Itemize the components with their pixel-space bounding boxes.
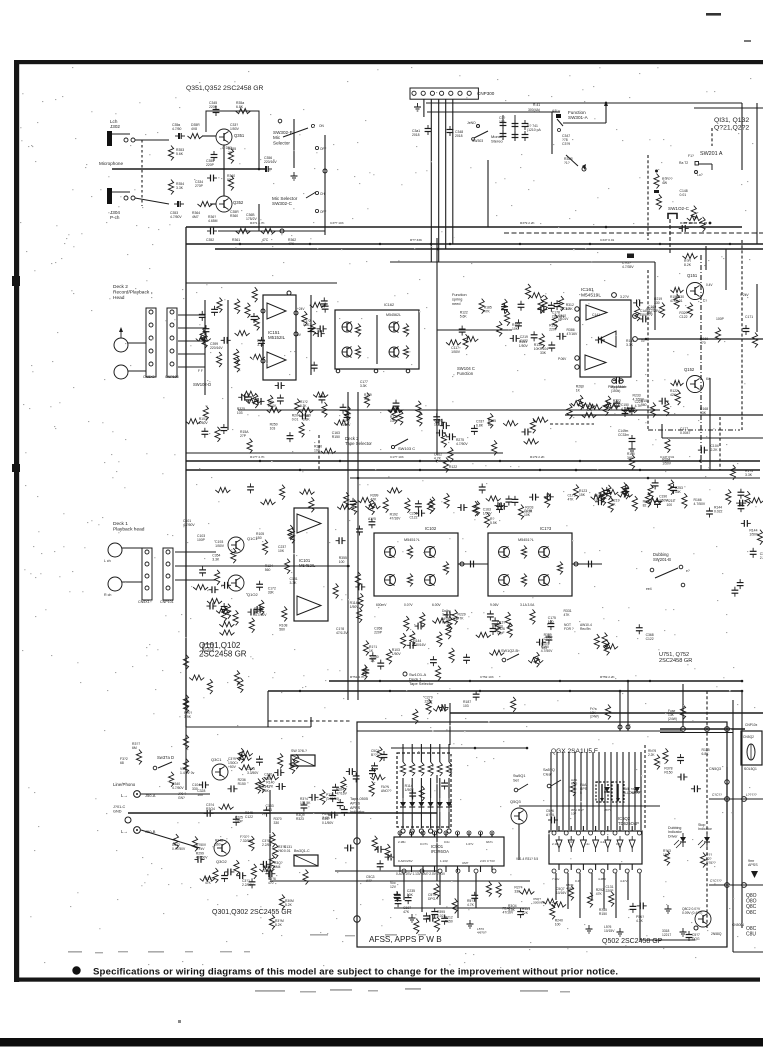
svg-text:R?5??: R?5??: [706, 861, 716, 865]
resistor: [345, 406, 350, 421]
resistor: [410, 631, 415, 646]
svg-text:?1?: ?1?: [564, 161, 570, 165]
resistor R363: [261, 228, 276, 233]
svg-text:1/50V: 1/50V: [215, 544, 225, 548]
label R1x2: [300, 400, 308, 408]
label Lch: [104, 559, 111, 563]
resistor left col a: [183, 735, 188, 750]
svg-text:47K: 47K: [484, 309, 491, 313]
resistor: [601, 491, 606, 506]
coil symbol in CN502: [747, 744, 755, 760]
resistor fuse R: [680, 705, 685, 720]
resistor: [234, 349, 239, 364]
op-amp IC161a: [586, 305, 607, 320]
svg-text:Q152: Q152: [684, 367, 695, 372]
svg-text:R?59 2.2K: R?59 2.2K: [600, 675, 616, 679]
label R105: [256, 532, 264, 540]
wire bus y453: [186, 452, 503, 454]
wire feedback loop Q351: [206, 111, 259, 132]
wire AFSS vertical 11: [616, 752, 618, 830]
svg-text:R3Q4: R3Q4: [206, 807, 215, 811]
svg-text:GN?: GN?: [178, 796, 185, 800]
transistor IC102 b: [385, 575, 396, 586]
resistor: [452, 898, 457, 913]
resistor: [446, 340, 461, 345]
label SW328: [291, 749, 307, 753]
label C229: [635, 400, 643, 408]
junction: [526, 747, 529, 750]
resistor R30b: [183, 699, 188, 714]
wire bus y461: [186, 460, 760, 462]
svg-text:1/50V: 1/50V: [230, 127, 240, 131]
label R331: [563, 609, 571, 617]
junction: [430, 243, 433, 246]
resistor: [388, 407, 403, 412]
wire LED col 2 lower: [420, 812, 422, 828]
node circle D: [725, 780, 729, 784]
capacitor C344b: [500, 130, 507, 140]
junction on bus y470: [639, 469, 641, 471]
svg-text:Selector: Selector: [273, 140, 290, 145]
label C149: [618, 429, 629, 437]
svg-text:4.7/50V: 4.7/50V: [541, 649, 553, 653]
switch SW201-A: [695, 162, 713, 174]
svg-text:R150: R150: [599, 912, 607, 916]
label R148: [215, 839, 223, 847]
wire vert deck2 a: [204, 300, 206, 395]
svg-text:A??: A??: [366, 879, 372, 883]
wire dash col right: [741, 240, 743, 430]
label W13k: [268, 400, 277, 408]
capacitor: [415, 510, 425, 517]
capacitor C344a: [500, 119, 507, 129]
junction: [258, 168, 261, 171]
resistor: [260, 499, 275, 504]
resistor R19 10k: [388, 407, 403, 412]
svg-text:A3/3QY: A3/3QY: [631, 791, 642, 795]
transistor Q351: [216, 129, 232, 145]
svg-text:C352: C352: [206, 238, 214, 242]
label R236: [238, 778, 246, 786]
resistor: [358, 593, 363, 608]
capacitor: [299, 413, 309, 420]
resistor: [405, 498, 410, 513]
capacitor: [233, 816, 240, 826]
capacitor: [276, 783, 286, 790]
pin circle IC161 top: [612, 293, 617, 298]
capacitor: [628, 405, 635, 415]
label M54512Lb: [518, 538, 534, 542]
node row below IC502: [552, 869, 641, 873]
svg-text:SW201 A: SW201 A: [700, 151, 723, 157]
resistor: [234, 357, 239, 372]
resistor LED col 5: [446, 762, 451, 776]
label 0v2: [641, 339, 646, 343]
capacitor C172: [308, 325, 315, 335]
label C268: [374, 627, 383, 635]
resistor: [207, 598, 222, 603]
svg-text:2018: 2018: [412, 133, 420, 137]
mic jack J302: [107, 131, 135, 146]
resistor: [362, 665, 367, 680]
label CNP105: [165, 375, 179, 379]
capacitor: [544, 493, 554, 500]
label R365: [208, 215, 218, 223]
resistor R142: [582, 412, 597, 417]
resistor: [302, 311, 307, 326]
svg-text:33K: 33K: [540, 351, 547, 355]
resistor: [542, 295, 547, 310]
resistor: [488, 413, 493, 428]
svg-text:SW301-A: SW301-A: [568, 115, 589, 120]
pin circle IC161 d: [575, 365, 579, 369]
resistor IC103 a: [521, 546, 526, 559]
resistor IC102 a: [407, 546, 412, 559]
label R175: [745, 469, 753, 477]
capacitor: [369, 767, 376, 777]
capacitor: [369, 518, 376, 528]
label C107: [403, 906, 411, 914]
resistor R17: [654, 174, 659, 189]
resistor: [674, 294, 679, 309]
label p06: [558, 357, 567, 361]
resistor: [282, 606, 287, 621]
wire jack R: [135, 198, 169, 204]
wire bus y410 deck2: [238, 409, 660, 411]
wire IC502 bot pin 5: [619, 864, 621, 870]
resistor R169: [752, 333, 757, 348]
label C38: [262, 839, 271, 847]
svg-text:4W: 4W: [662, 181, 668, 185]
wire right edge segment b: [756, 284, 758, 332]
wire to Q502 right: [639, 900, 641, 940]
capacitor: [510, 335, 520, 342]
resistor: [486, 496, 501, 501]
ground AFSS a: [586, 925, 593, 933]
resistor: [253, 393, 258, 408]
svg-text:3.3K: 3.3K: [626, 343, 634, 347]
label C107: [646, 307, 654, 315]
resistor: [369, 781, 374, 796]
label Q131 Q132 Q231 Q232: [714, 117, 749, 131]
capacitor: [275, 382, 285, 389]
pin circle IC161 f: [619, 379, 623, 383]
svg-text:6.8K: 6.8K: [702, 752, 710, 756]
svg-text:10K: 10K: [512, 327, 519, 331]
wire LED col 1 lower: [411, 812, 413, 828]
resistor: [322, 402, 327, 417]
label R319: [544, 633, 552, 641]
resistor: [196, 336, 211, 341]
svg-text:UM?: UM?: [462, 861, 469, 865]
label L53: [477, 927, 487, 935]
label Dubbing SW201-B: [653, 552, 671, 562]
label Play Mode: [608, 385, 625, 389]
label C104: [710, 444, 718, 452]
resistor: [268, 395, 273, 410]
label R189: [303, 413, 311, 421]
capacitor: [548, 620, 555, 630]
switch SW303-D: [153, 762, 172, 770]
label Q301 Q302 2SC2455 GR: [212, 909, 292, 916]
capacitor C342: [425, 125, 432, 135]
svg-text:APPS: APPS: [350, 806, 361, 810]
resistor: [234, 860, 239, 875]
svg-text:F10: F10: [205, 646, 213, 651]
label R192: [390, 512, 401, 520]
label AAA RPS: [571, 778, 578, 786]
resistor R317: [136, 750, 141, 765]
capacitor: [319, 393, 326, 403]
resistor: [604, 403, 619, 408]
wire right column divider: [732, 700, 734, 952]
label Deck1 Playback head: [113, 521, 145, 532]
svg-text:Indicator: Indicator: [350, 810, 365, 814]
contact small: [477, 125, 480, 128]
resistor: [200, 329, 205, 344]
resistor: [606, 396, 611, 411]
label J350-B: [145, 829, 156, 834]
label R103: [199, 417, 209, 425]
svg-text:CNP105: CNP105: [165, 375, 179, 379]
capacitor: [521, 429, 531, 436]
ground C149: [629, 445, 636, 453]
label R222: [613, 399, 622, 407]
wire IC502 top pin 2: [582, 826, 584, 831]
label 600mV: [376, 603, 387, 607]
wire bus y249: [215, 248, 763, 250]
junction: [741, 690, 744, 693]
label M54562L: [386, 313, 401, 317]
label R275: [456, 438, 468, 446]
wire SW301 stem: [551, 112, 553, 154]
wire dash y424: [550, 423, 594, 425]
label C328: [197, 789, 205, 797]
electrolytic capacitor C354: [175, 133, 185, 139]
resistor: [606, 485, 611, 500]
resistor: [700, 217, 705, 232]
label J50 GND: [178, 792, 186, 800]
label R274: [514, 885, 522, 893]
resistor: [370, 775, 385, 780]
resistor: [264, 775, 279, 780]
svg-text:ee4: ee4: [646, 587, 652, 591]
wire IC502 out down 5: [615, 873, 617, 918]
label A105: [368, 517, 376, 521]
resistor: [446, 624, 451, 639]
wire IC501 top pin 2: [422, 832, 424, 837]
capacitor: [498, 503, 508, 510]
resistor: [528, 658, 543, 663]
svg-text:12V: 12V: [390, 885, 397, 889]
junction: [741, 680, 744, 683]
transistor IC103 c: [539, 547, 550, 558]
svg-text:4.7K: 4.7K: [635, 404, 643, 408]
svg-text:1K: 1K: [611, 503, 616, 507]
resistor: [437, 632, 442, 647]
resistor LED col 4: [437, 762, 442, 776]
label C3 22: [242, 879, 254, 887]
svg-text:100P: 100P: [716, 317, 725, 321]
capacitor: [501, 303, 508, 313]
label 2N58Q: [711, 932, 722, 936]
label R166: [700, 337, 708, 345]
ground AFSS d: [467, 920, 474, 928]
resistor: [413, 709, 418, 724]
resistor: [310, 321, 315, 336]
svg-text:C122: C122: [544, 637, 552, 641]
junction: [647, 477, 650, 480]
switch SW101-A circle: [403, 672, 407, 676]
resistor IC102 c: [443, 562, 448, 575]
label R164: [594, 494, 602, 502]
wire bus y233 dash: [504, 232, 763, 234]
op-amp IC151a: [267, 303, 286, 319]
svg-text:33K: 33K: [700, 411, 707, 415]
junction on bus y470: [539, 469, 541, 471]
label R345: [245, 811, 253, 819]
label C312: [172, 843, 186, 851]
svg-text:Sw37a D: Sw37a D: [157, 755, 174, 760]
svg-text:C141: C141: [592, 313, 600, 317]
wire LED col 0: [402, 744, 404, 762]
label R361: [232, 238, 240, 242]
capacitor: [245, 393, 252, 403]
svg-text:5.2K: 5.2K: [285, 903, 293, 907]
switch cross mark: [291, 755, 315, 766]
capacitor: [636, 624, 643, 634]
label V214: [516, 857, 538, 861]
label C5C: [371, 749, 379, 757]
svg-text:M54562L: M54562L: [386, 313, 401, 317]
svg-text:GND: GND: [113, 809, 122, 813]
svg-text:Ra T2: Ra T2: [679, 161, 688, 165]
svg-text:6M: 6M: [132, 746, 137, 750]
resistor R123: [573, 485, 578, 500]
capacitor: [737, 579, 744, 589]
svg-text:C122: C122: [520, 339, 528, 343]
wire q151 top: [725, 249, 727, 290]
wire vert deck2 b: [227, 300, 229, 430]
resistor: [249, 836, 254, 851]
junction on bus y681: [559, 680, 561, 682]
resistor IC102 b: [407, 574, 412, 587]
svg-text:2.2K: 2.2K: [710, 448, 718, 452]
label 24c: [560, 307, 570, 311]
resistor C5Q7b: [587, 893, 592, 908]
svg-text:220/16V: 220/16V: [264, 160, 277, 164]
wire d1 head R: [122, 581, 142, 583]
svg-text:82: 82: [558, 318, 562, 322]
svg-text:68: 68: [120, 761, 124, 765]
capacitor: [637, 902, 647, 909]
resistor: [448, 447, 453, 462]
black blob junction: [627, 254, 634, 259]
op-amp IC101b: [297, 596, 321, 615]
resistor: [675, 390, 680, 405]
wire AFSS vertical 13: [628, 752, 630, 830]
resistor: [280, 485, 285, 500]
label SW302-B Mic Selector: [273, 130, 293, 145]
resistor: [525, 284, 530, 299]
svg-text:Bw3Q1-C: Bw3Q1-C: [294, 849, 310, 853]
capacitor: [341, 806, 348, 816]
svg-text:Rec/9n: Rec/9n: [580, 627, 591, 631]
svg-text:Q3O2: Q3O2: [216, 859, 227, 864]
transistor in IC162 c: [389, 322, 399, 333]
wire long y415: [565, 414, 763, 416]
svg-text:0.01: 0.01: [680, 193, 687, 197]
arrowhead riser: [604, 101, 608, 106]
capacitor: [548, 342, 555, 352]
resistor: [250, 354, 265, 359]
resistor: [344, 492, 349, 507]
resistor: [200, 876, 215, 881]
label R193: [255, 609, 267, 617]
label 300 4A: [528, 108, 540, 112]
resistor: [486, 882, 491, 897]
transistor IC102 d: [425, 575, 436, 586]
label CC: [712, 793, 722, 797]
wire IC502 bot pin 2: [582, 864, 584, 870]
label C163: [483, 508, 493, 516]
capacitor: [301, 801, 308, 811]
resistor: [609, 892, 614, 907]
resistor: [608, 497, 613, 512]
svg-text:10K: 10K: [390, 419, 397, 423]
capacitor: [369, 652, 376, 662]
svg-text:Q351,Q352 2SC2458 GR: Q351,Q352 2SC2458 GR: [186, 85, 264, 92]
node circle G: [725, 883, 730, 888]
resistor: [203, 406, 208, 421]
svg-text:1/50V: 1/50V: [350, 605, 360, 609]
svg-text:DQG: DQG: [692, 937, 700, 941]
capacitor: [337, 799, 344, 809]
capacitor: [221, 582, 231, 589]
svg-text:Q351: Q351: [234, 133, 245, 138]
wire dash x720: [719, 417, 721, 470]
resistor LED col 1: [410, 762, 415, 776]
svg-text:SW302-C: SW302-C: [272, 201, 293, 206]
transistor Q302: [214, 840, 230, 856]
label R140: [502, 906, 513, 914]
svg-text:Function: Function: [457, 371, 474, 376]
wire LED col 5 mid: [448, 778, 450, 798]
resistor: [492, 440, 497, 455]
wire left col bottom: [185, 727, 187, 790]
label Play Mode2: [611, 385, 627, 393]
capacitor: [238, 394, 248, 401]
capacitor: [698, 447, 708, 454]
capacitor: [441, 780, 448, 790]
capacitor: [247, 609, 257, 616]
svg-text:220/16V: 220/16V: [210, 346, 223, 350]
resistor: [352, 500, 357, 515]
svg-text:FOR ?: FOR ?: [564, 627, 574, 631]
label R219: [611, 499, 619, 507]
label C5Q7: [556, 887, 567, 895]
svg-text:4.7/50V: 4.7/50V: [255, 613, 267, 617]
resistor: [219, 622, 234, 627]
resistor R3Q6: [269, 855, 274, 870]
svg-text:e?: e?: [686, 569, 690, 573]
capacitor: [256, 581, 263, 591]
resistor: [603, 644, 618, 649]
junction: [627, 680, 630, 683]
wire right bus down: [741, 103, 743, 170]
wire IC502 bot pin 6: [631, 864, 633, 870]
wire bus y227: [186, 226, 742, 228]
